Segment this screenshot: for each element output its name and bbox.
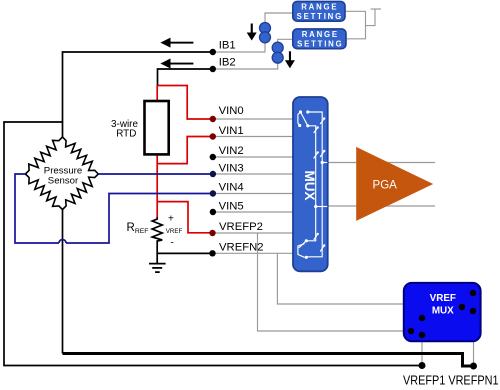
svg-text:IB1: IB1 [219,40,236,52]
svg-text:PGA: PGA [373,180,398,192]
svg-text:RTD: RTD [116,129,136,140]
svg-text:MUX: MUX [302,171,317,201]
svg-text:Sensor: Sensor [48,175,79,186]
svg-text:VIN0: VIN0 [219,105,244,117]
svg-text:RREF: RREF [127,222,149,235]
svg-text:VIN5: VIN5 [219,201,244,213]
svg-text:+: + [168,214,174,225]
svg-text:RANGE: RANGE [301,2,338,11]
svg-text:RANGE: RANGE [302,30,339,39]
svg-text:VREFN2: VREFN2 [219,242,264,254]
svg-text:VREF: VREF [166,228,183,235]
svg-text:VREF: VREF [430,293,456,304]
svg-text:VIN4: VIN4 [219,182,244,194]
svg-text:VREFP1 VREFPN1: VREFP1 VREFPN1 [403,373,499,387]
svg-text:VIN1: VIN1 [219,125,244,137]
svg-text:VIN3: VIN3 [219,163,244,175]
svg-text:SETTING: SETTING [297,40,343,49]
svg-text:VIN2: VIN2 [219,145,244,157]
svg-text:-: - [171,238,174,249]
svg-text:VREFP2: VREFP2 [219,221,263,233]
svg-text:IB2: IB2 [219,57,236,69]
svg-text:MUX: MUX [432,306,454,317]
svg-text:SETTING: SETTING [297,12,343,21]
